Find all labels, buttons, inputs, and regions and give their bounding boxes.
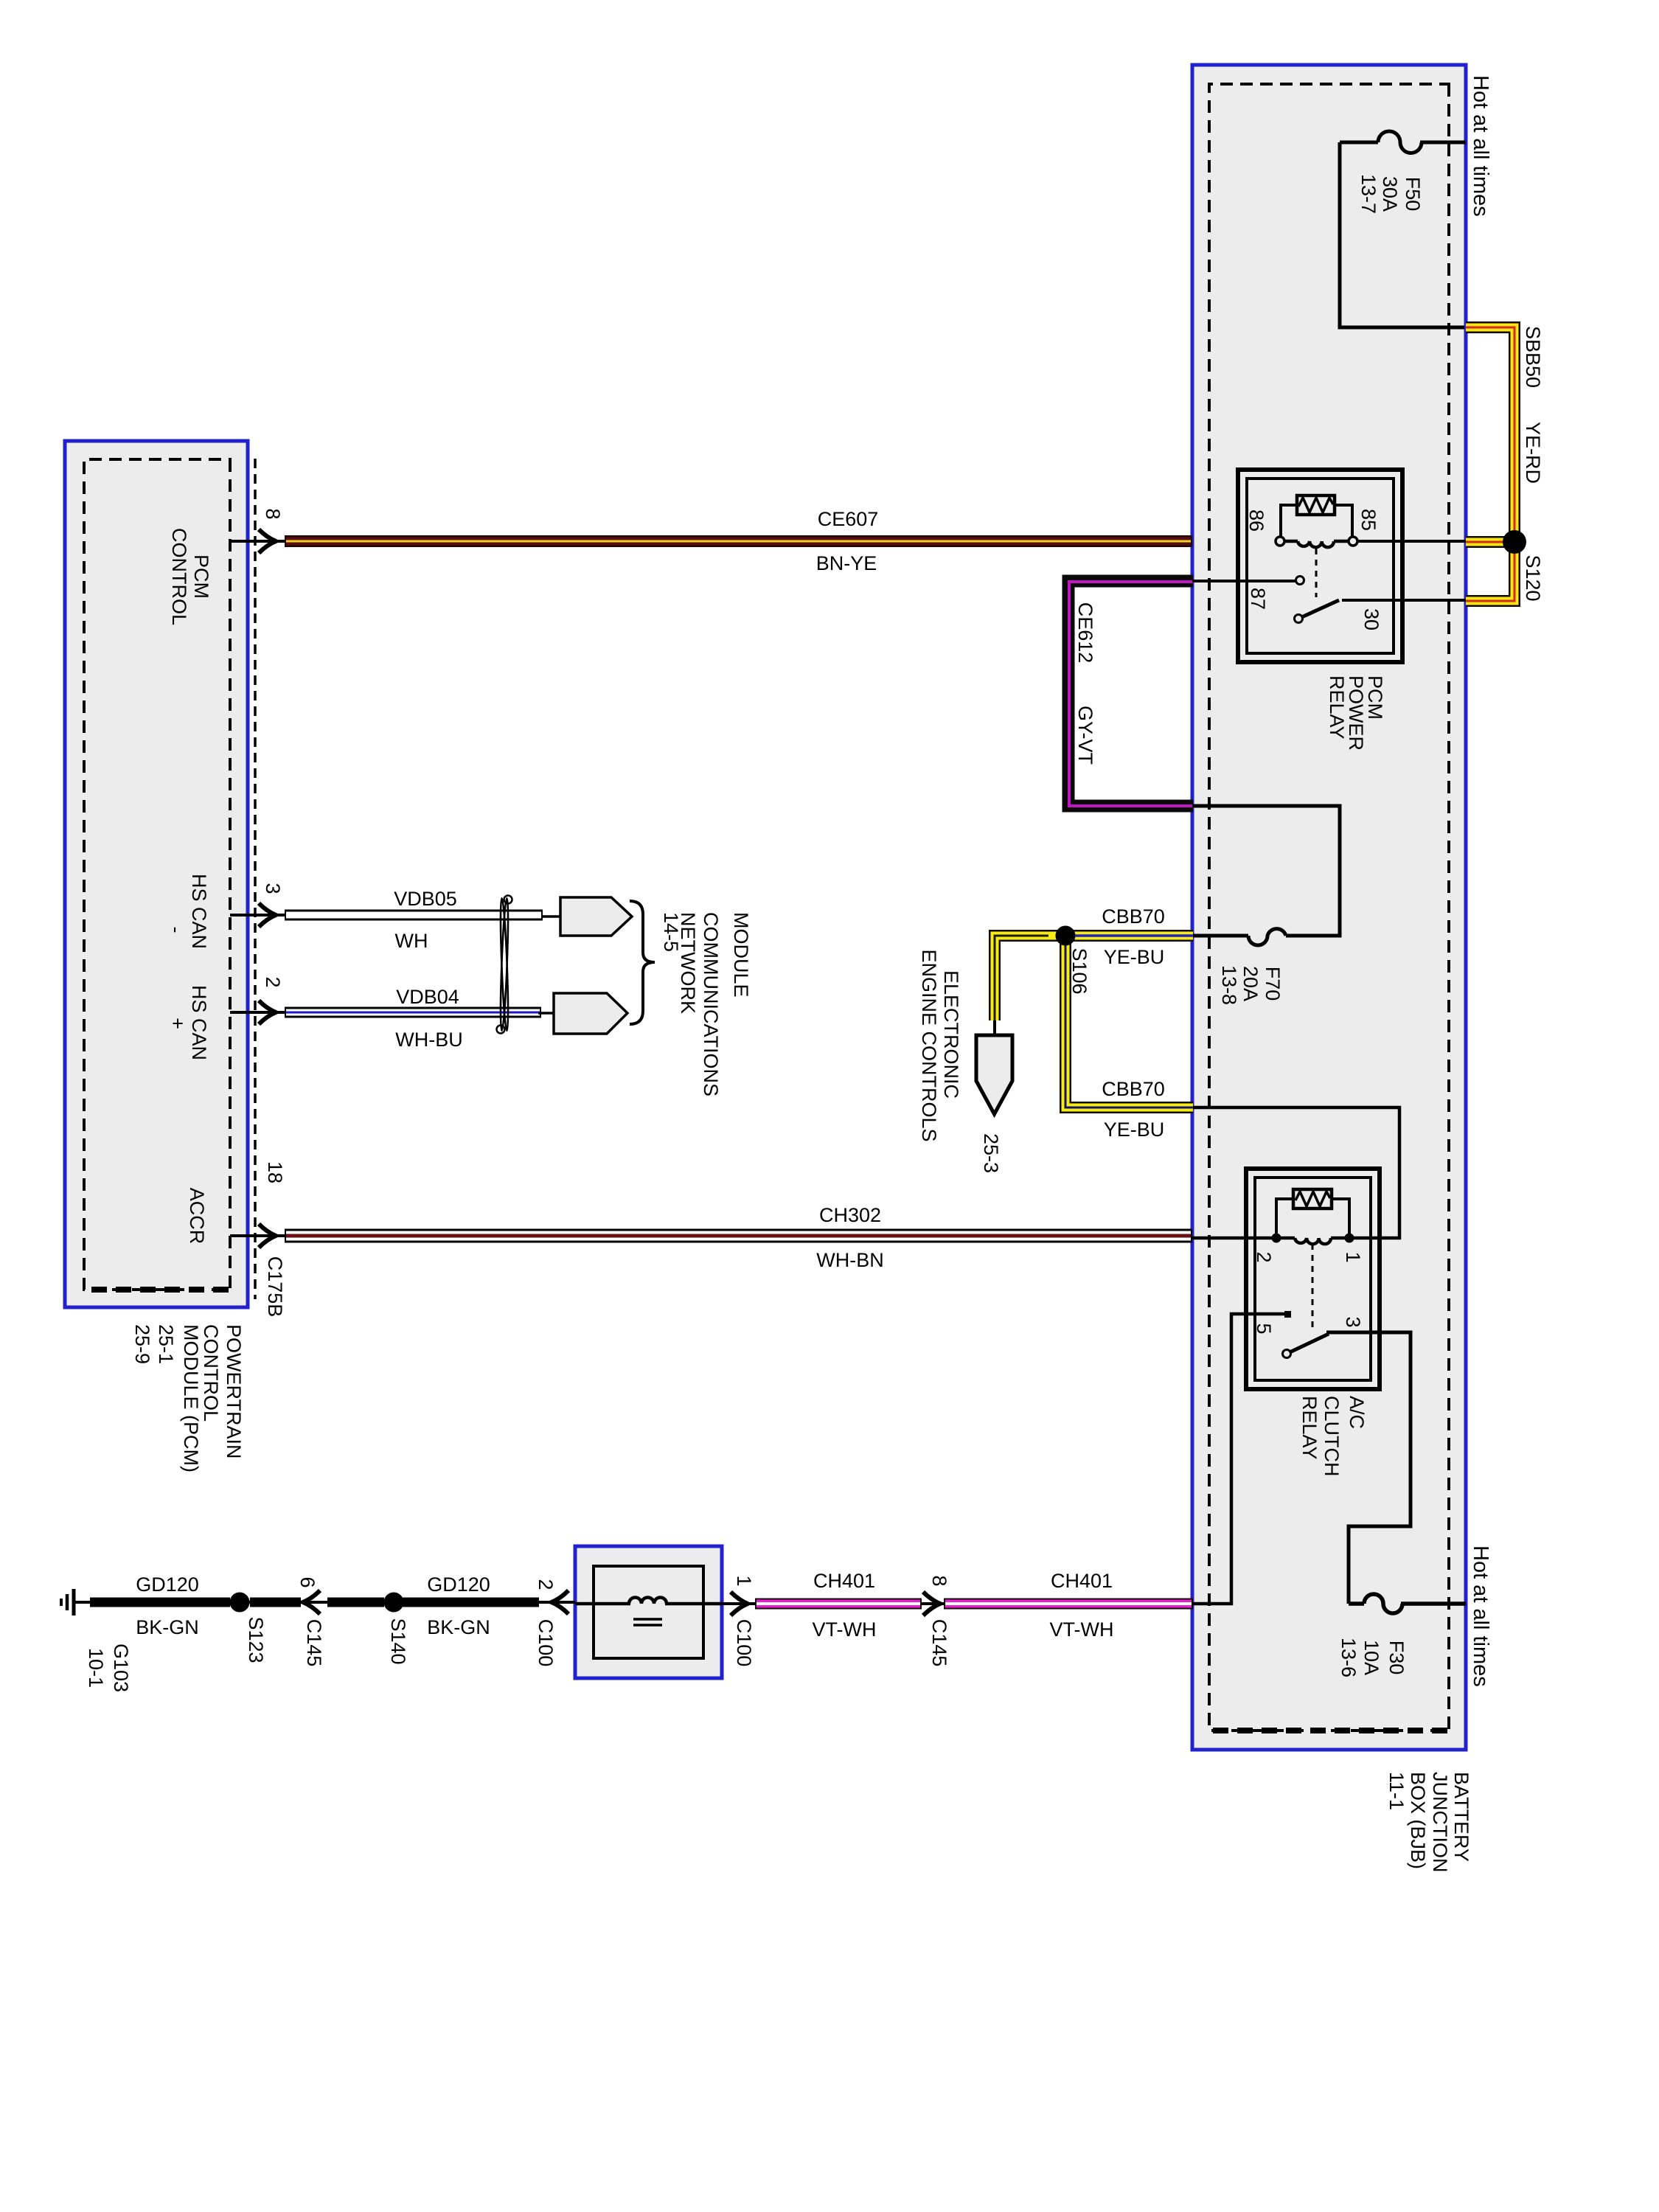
svg-text:S140: S140: [387, 1618, 409, 1664]
svg-text:CONTROL: CONTROL: [168, 528, 190, 625]
svg-text:CE607: CE607: [818, 508, 879, 530]
svg-text:C145: C145: [928, 1619, 950, 1667]
PCM pin 2 stub and arrow: [230, 1001, 285, 1024]
svg-text:ACCR: ACCR: [186, 1188, 208, 1245]
svg-text:30A: 30A: [1379, 176, 1401, 212]
svg-text:POWER: POWER: [1345, 675, 1367, 751]
A/C clutch field coil L1: [575, 1598, 722, 1626]
svg-text:2: 2: [262, 976, 284, 987]
svg-text:8: 8: [928, 1575, 950, 1586]
svg-text:CONTROL: CONTROL: [200, 1324, 222, 1422]
svg-text:F70: F70: [1262, 967, 1284, 1001]
svg-text:WH-BU: WH-BU: [395, 1029, 462, 1051]
svg-text:13-7: 13-7: [1357, 174, 1380, 214]
relay2 coil wire from CH302: [1192, 1237, 1276, 1240]
svg-text:85: 85: [1357, 509, 1380, 531]
A/C clutch field coil box: [575, 1546, 722, 1678]
wire to 25-3 connector (yellow): [995, 936, 1065, 1037]
svg-text:HS CAN: HS CAN: [188, 985, 210, 1060]
ground chain wire GD120: [75, 1601, 575, 1604]
svg-text:YE-BU: YE-BU: [1104, 946, 1165, 968]
svg-text:25-1: 25-1: [155, 1324, 177, 1364]
svg-text:F50: F50: [1402, 177, 1424, 212]
svg-text:3: 3: [262, 883, 284, 894]
powertrain control module PCM outline: [65, 441, 248, 1307]
svg-text:A/C: A/C: [1346, 1396, 1368, 1429]
PCM pin 8 stub and arrow: [230, 529, 285, 553]
svg-text:30: 30: [1360, 608, 1382, 630]
relay2 armature: [1287, 1334, 1329, 1354]
svg-text:-: -: [165, 927, 187, 933]
module network connector A: [560, 897, 632, 936]
PCM pin 18 stub and arrow: [230, 1224, 285, 1248]
wire S120 stub to relay coil: [1353, 540, 1466, 543]
connector C100 arrow (pin 1, above coil): [722, 1592, 755, 1615]
connector C175B dashed line: [254, 459, 257, 1299]
svg-text:S123: S123: [245, 1616, 267, 1663]
svg-text:C100: C100: [535, 1619, 557, 1667]
wire relay pin30 to S120 stub: [1342, 599, 1466, 602]
svg-text:G103: G103: [110, 1644, 132, 1692]
ground G103: [61, 1589, 74, 1615]
svg-text:C175B: C175B: [264, 1256, 286, 1318]
svg-text:CLUTCH: CLUTCH: [1321, 1396, 1343, 1477]
svg-text:ENGINE CONTROLS: ENGINE CONTROLS: [918, 949, 940, 1141]
PCM power relay U1: [1238, 470, 1402, 662]
svg-text:CH401: CH401: [1051, 1570, 1113, 1592]
wire CH302 WH-BN (PCM pin 18 ACCR to A/C clutch relay coil): [285, 1229, 1192, 1243]
svg-text:S120: S120: [1522, 554, 1544, 601]
svg-text:WH-BN: WH-BN: [816, 1249, 883, 1271]
relay1 coil terminals: [1349, 537, 1357, 546]
node S120: [1503, 530, 1526, 554]
relay2 coil terminals: [1345, 1234, 1354, 1243]
node S123: [230, 1593, 250, 1613]
svg-text:+: +: [167, 1018, 189, 1029]
svg-text:10A: 10A: [1360, 1640, 1382, 1675]
relay2 coil: [1331, 1237, 1349, 1240]
svg-text:5: 5: [1253, 1323, 1275, 1334]
relay1 contact 87: [1296, 577, 1304, 585]
fuse F50 30A: [1340, 131, 1466, 327]
svg-text:Hot at all times: Hot at all times: [1469, 1545, 1492, 1687]
svg-text:SBB50: SBB50: [1522, 326, 1544, 388]
fuse F70 20A: [1193, 806, 1340, 945]
svg-text:BN-YE: BN-YE: [816, 552, 877, 574]
svg-text:25-3: 25-3: [980, 1133, 1002, 1173]
svg-text:MODULE: MODULE: [730, 912, 752, 998]
wire pin87 to CE612: [1192, 580, 1298, 582]
wire VDB05 WH (HS CAN -): [285, 910, 543, 921]
connector C145 arrow (pin 8): [920, 1592, 945, 1615]
svg-text:1: 1: [1342, 1251, 1364, 1262]
svg-text:CBB70: CBB70: [1102, 905, 1165, 928]
relay2 contact 5: [1284, 1311, 1291, 1318]
svg-text:VDB05: VDB05: [394, 888, 457, 910]
svg-text:BATTERY: BATTERY: [1450, 1772, 1472, 1862]
svg-text:13-6: 13-6: [1338, 1638, 1360, 1677]
wire CH401 VT-WH (BJB to C145): [944, 1599, 1193, 1610]
svg-text:2: 2: [535, 1579, 557, 1590]
svg-text:VDB04: VDB04: [396, 986, 459, 1008]
svg-text:COMMUNICATIONS: COMMUNICATIONS: [700, 912, 722, 1096]
svg-text:CBB70: CBB70: [1102, 1078, 1165, 1100]
svg-text:87: 87: [1247, 588, 1269, 610]
wire VDB04 WH-BU (HS CAN +): [285, 1007, 541, 1018]
relay1 coil: [1334, 540, 1353, 543]
svg-text:S106: S106: [1068, 947, 1091, 994]
svg-text:8: 8: [262, 508, 284, 519]
svg-text:10-1: 10-1: [85, 1648, 107, 1688]
svg-text:Hot at all times: Hot at all times: [1469, 75, 1492, 217]
svg-text:JUNCTION: JUNCTION: [1429, 1772, 1451, 1873]
svg-text:CH401: CH401: [813, 1570, 875, 1592]
svg-text:VT-WH: VT-WH: [813, 1618, 877, 1641]
svg-text:PCM: PCM: [190, 554, 212, 599]
svg-text:WH: WH: [395, 930, 428, 952]
svg-text:14-5: 14-5: [660, 912, 682, 952]
svg-text:20A: 20A: [1239, 966, 1262, 1001]
svg-text:POWERTRAIN: POWERTRAIN: [223, 1324, 245, 1459]
svg-text:18: 18: [264, 1161, 286, 1183]
svg-text:YE-RD: YE-RD: [1522, 422, 1544, 484]
module network connector B: [554, 993, 627, 1034]
svg-text:GD120: GD120: [427, 1573, 490, 1596]
wire SBB50 YE-RD (F50 to S120 to relay pin 30): [1466, 327, 1514, 601]
svg-text:BOX (BJB): BOX (BJB): [1407, 1772, 1429, 1869]
svg-text:6: 6: [296, 1576, 319, 1587]
svg-text:RELAY: RELAY: [1298, 1396, 1321, 1460]
A/C clutch relay K2: [1192, 1169, 1380, 1389]
svg-text:C145: C145: [303, 1619, 325, 1667]
svg-text:ELECTRONIC: ELECTRONIC: [940, 970, 962, 1099]
relay1 actuator dashed link: [1315, 549, 1318, 597]
svg-text:86: 86: [1245, 509, 1267, 532]
fuse F30 10A: [1326, 1332, 1466, 1613]
svg-text:11-1: 11-1: [1385, 1772, 1408, 1810]
svg-text:C100: C100: [733, 1619, 755, 1667]
wire CBB70 YE-BU (S106 to A/C clutch relay): [1065, 936, 1193, 1107]
wire A/C relay pin5 to CH401: [1192, 1314, 1287, 1604]
wire CE607 BN-YE (PCM pin 8 to PCM power relay coil): [285, 535, 1192, 547]
wire CBB70 YE-BU (F70 to S106): [1065, 930, 1193, 942]
battery junction box BJB outline: [1192, 65, 1466, 1750]
svg-text:CE612: CE612: [1074, 602, 1096, 664]
connector C145 arrow (pin 6): [303, 1590, 320, 1614]
svg-text:MODULE (PCM): MODULE (PCM): [180, 1324, 202, 1472]
svg-text:HS CAN: HS CAN: [188, 874, 210, 949]
relay2 suppression resistor: [1276, 1199, 1293, 1238]
connector C100 arrow (pin 2, below coil): [552, 1590, 568, 1614]
svg-text:PCM: PCM: [1364, 675, 1386, 720]
twisted pair symbol: [497, 896, 512, 1034]
svg-text:2: 2: [1253, 1251, 1275, 1262]
svg-text:1: 1: [733, 1575, 755, 1586]
wire CH401 VT-WH (C145 to field coil C100): [755, 1599, 922, 1610]
svg-text:GD120: GD120: [136, 1573, 199, 1596]
svg-text:3: 3: [1342, 1316, 1364, 1327]
svg-text:F30: F30: [1385, 1641, 1408, 1675]
svg-text:13-8: 13-8: [1218, 965, 1240, 1005]
svg-text:25-9: 25-9: [131, 1324, 153, 1364]
relay2 actuator dashed link: [1312, 1244, 1314, 1327]
svg-text:BK-GN: BK-GN: [427, 1616, 490, 1638]
off-page connector 25-3: [976, 1035, 1012, 1114]
svg-text:YE-BU: YE-BU: [1104, 1119, 1165, 1141]
node S106: [1056, 926, 1076, 946]
svg-text:RELAY: RELAY: [1326, 675, 1348, 740]
wire CBB70 to A/C relay coil pin1: [1193, 1107, 1399, 1238]
relay1 suppression resistor: [1281, 505, 1297, 542]
svg-text:BK-GN: BK-GN: [136, 1616, 199, 1638]
PCM pin 3 stub and arrow: [230, 903, 285, 927]
relay1 armature: [1298, 600, 1339, 619]
wire CE612 GY-VT (relay pin 87 loop): [1068, 581, 1193, 806]
node S140: [384, 1593, 404, 1613]
svg-text:GY-VT: GY-VT: [1074, 706, 1096, 765]
svg-text:VT-WH: VT-WH: [1050, 1618, 1114, 1641]
brace for module network: [630, 901, 655, 1024]
svg-text:CH302: CH302: [819, 1204, 881, 1226]
